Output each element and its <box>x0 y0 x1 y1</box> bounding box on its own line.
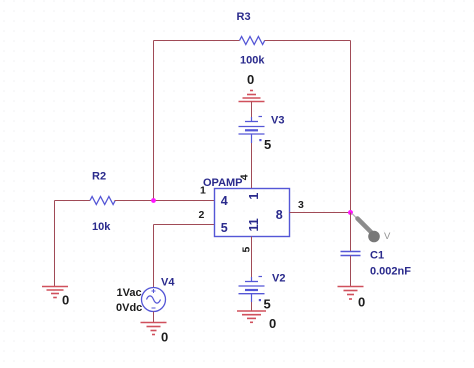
svg-text:10k: 10k <box>92 221 111 233</box>
wire: opamp bottom pin to V2 <box>251 237 253 278</box>
svg-text:R2: R2 <box>92 170 106 182</box>
svg-text:5: 5 <box>241 247 253 253</box>
wire: output node down to C1 <box>350 213 352 252</box>
wire: right vertical down to output node <box>350 41 352 213</box>
wire: opamp output to node <box>290 212 351 214</box>
wire: V4 to ground <box>153 312 155 323</box>
voltage probe <box>352 214 391 243</box>
svg-text:100k: 100k <box>240 55 265 67</box>
ground 0 below V2 <box>237 311 266 322</box>
svg-text:V4: V4 <box>161 276 175 288</box>
wire: V2 to ground <box>251 302 253 311</box>
svg-text:0.002nF: 0.002nF <box>370 266 411 278</box>
output junction node <box>348 210 353 215</box>
resistor R3 <box>240 37 265 45</box>
wire: C1 to ground <box>350 256 352 287</box>
junction node inverting input <box>151 198 156 203</box>
wire: top horizontal left of R3 <box>154 40 240 42</box>
svg-text:11: 11 <box>247 218 261 231</box>
svg-text:V2: V2 <box>272 273 285 285</box>
wire: opamp pin 2 horizontal <box>154 224 215 226</box>
svg-text:0Vdc: 0Vdc <box>116 302 142 314</box>
wire: top horizontal right of R3 <box>265 40 351 42</box>
capacitor C1 <box>341 252 361 256</box>
battery V3 <box>239 117 265 144</box>
svg-text:0: 0 <box>62 292 69 307</box>
ground 0 flipped above V3 <box>239 91 265 102</box>
op-amp U1 body <box>215 189 290 237</box>
svg-text:4: 4 <box>221 194 228 208</box>
svg-text:0: 0 <box>358 294 365 309</box>
svg-text:0: 0 <box>247 72 254 87</box>
battery V2 <box>239 277 265 303</box>
svg-text:5: 5 <box>264 296 271 311</box>
svg-text:5: 5 <box>221 221 228 235</box>
svg-text:1: 1 <box>247 193 261 200</box>
AC source V4 <box>142 288 166 312</box>
svg-text:C1: C1 <box>370 249 384 261</box>
ground 0 at C1 <box>338 287 364 300</box>
svg-text:R3: R3 <box>237 11 251 23</box>
wire: junction to opamp pin 1 <box>154 200 215 202</box>
svg-text:0: 0 <box>269 316 276 331</box>
resistor R2 <box>90 197 115 205</box>
wire: feedback loop left vertical <box>153 41 155 201</box>
svg-text:V: V <box>384 231 391 242</box>
svg-text:1: 1 <box>200 185 206 197</box>
svg-text:5: 5 <box>264 137 271 152</box>
svg-text:2: 2 <box>199 209 205 221</box>
svg-text:3: 3 <box>298 199 304 211</box>
wire: down to V4 <box>153 225 155 288</box>
svg-text:0: 0 <box>161 329 168 344</box>
svg-text:4: 4 <box>239 174 251 180</box>
wire: V3 to opamp top pin <box>251 143 253 188</box>
wire: input left vertical to ground <box>54 201 56 287</box>
svg-text:8: 8 <box>276 208 283 222</box>
wire: left horizontal into R2 <box>55 200 91 202</box>
svg-text:OPAMP: OPAMP <box>203 177 243 189</box>
ground 0 left <box>42 287 68 298</box>
svg-text:V3: V3 <box>271 114 284 126</box>
wire: ground to V3 <box>251 102 253 118</box>
svg-text:1Vac: 1Vac <box>117 287 142 299</box>
wire: R2 output to junction <box>115 200 154 202</box>
ground 0 below V4 <box>141 323 167 335</box>
